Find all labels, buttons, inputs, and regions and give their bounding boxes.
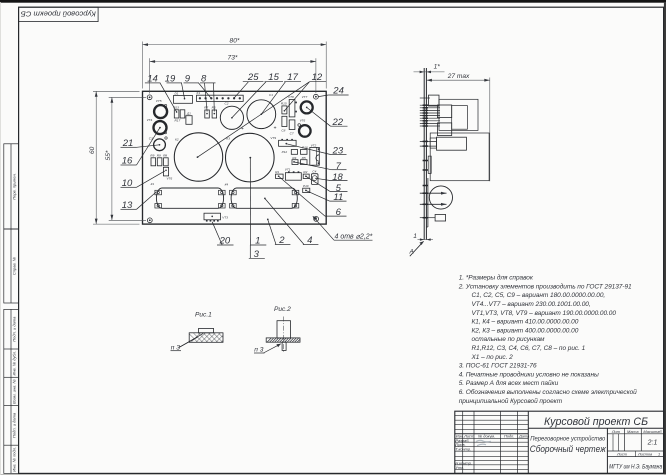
transistor VT8 rect [288,95,297,117]
fig2 solder leader [254,344,281,354]
callout 20 [212,222,233,247]
svg-text:2. Установку элементов произв: 2. Установку элементов производить по ГО… [458,282,632,290]
svg-text:Курсовой проект СБ: Курсовой проект СБ [544,416,648,428]
staff rows [455,437,529,439]
capacitor C3 [149,137,167,151]
callout 4 holes dia 2.2 [313,216,373,240]
svg-text:Переговорное устройство: Переговорное устройство [530,435,605,443]
svg-text:VT5: VT5 [156,99,162,103]
bottom page edge line [0,473,666,475]
mounting hole top-right [314,94,319,99]
svg-text:VT4: VT4 [147,118,153,122]
title block outer [455,411,664,473]
side view strip I [428,156,431,173]
fig1 component on top [199,328,214,332]
resistor R2 [303,170,309,179]
callout 18 [315,172,348,183]
svg-text:Масштаб: Масштаб [643,429,662,434]
svg-text:Инв. № подл.: Инв. № подл. [12,447,17,472]
svg-text:1: 1 [658,452,660,457]
svg-text:К2: К2 [175,138,179,142]
fig1 label [195,312,212,319]
fig1 hatched PCB bar [189,333,223,343]
revision rows [455,415,529,417]
side view dimension 27 max [426,73,489,181]
capacitor C7 [289,120,295,136]
callout 7 [294,161,346,172]
top edge black bar [0,0,666,3]
resistor R11 [163,167,172,180]
IC DA1 [174,91,193,103]
callout 6 [279,177,347,219]
resistor R12 pair [282,145,308,154]
side view component D [452,106,468,130]
dimension 73* [150,54,316,93]
resistor R13 pair [173,106,185,123]
callout 9 [184,73,212,98]
svg-text:1. *Размеры для справок: 1. *Размеры для справок [459,274,534,282]
svg-text:18: 18 [332,172,343,183]
svg-text:С2: С2 [225,102,229,106]
mounting hole top-left [147,95,152,100]
resistor R15 [281,102,287,114]
svg-text:Дата: Дата [518,433,530,438]
svg-text:Лит: Лит [611,429,621,434]
top-left designation box [19,7,99,21]
callout 5 [306,176,347,194]
svg-text:А: А [409,249,415,256]
svg-text:1*: 1* [434,63,441,70]
svg-text:VT7: VT7 [302,95,308,99]
callout 23 [287,144,347,157]
side view big outline B [439,99,478,130]
svg-text:VT6: VT6 [167,177,173,181]
svg-text:С4: С4 [312,169,316,173]
svg-text:Подп.: Подп. [504,433,514,438]
svg-text:VT1: VT1 [285,167,291,171]
solder size A arrow [409,241,424,256]
callout 25 [234,72,264,98]
svg-text:X1: X1 [195,91,200,95]
capacitor C4 [311,169,318,184]
capacitor C2 [220,102,244,133]
callout 14 [145,73,177,112]
callout 2 [267,219,290,247]
svg-text:R8: R8 [163,154,167,158]
resistor row R9 R9 R8 [150,154,168,166]
svg-text:27 max: 27 max [447,73,470,80]
svg-text:VT3: VT3 [222,215,228,219]
svg-text:К2, К3 – вариант 400.00.0000.0: К2, К3 – вариант 400.00.0000.00.00 [472,327,579,334]
transistor VT6 [298,119,311,137]
svg-text:VT2: VT2 [311,143,317,147]
svg-text:С1, С2, С5, С9 – вариант 180.0: С1, С2, С5, С9 – вариант 180.00.0000.00.… [472,292,606,299]
svg-text:R2: R2 [303,170,307,174]
callout 24 [318,86,348,97]
side view strip K behind board [426,178,428,227]
svg-text:Рис.1: Рис.1 [195,312,212,319]
callout 4 [264,198,318,247]
transistor VT7 [301,95,313,113]
svg-text:№ докум.: № докум. [478,433,495,438]
left margin column: Справ. № [4,229,19,303]
fig2 label [274,306,291,313]
svg-text:Сборочный чертеж: Сборочный чертеж [530,444,607,454]
side view component A [429,95,440,106]
svg-text:Подп. и дата: Подп. и дата [12,316,17,342]
svg-text:D1: D1 [175,91,179,95]
svg-text:5. Размер А для всех мест пай: 5. Размер А для всех мест пайки [459,379,559,387]
callout 10 [121,171,165,189]
svg-text:55*: 55* [105,150,112,160]
fig2 pin below [282,342,286,350]
svg-text:п 3: п 3 [254,347,263,354]
connector X1 [195,91,243,101]
left margin column: Перв. примен. [4,144,19,229]
side view relay can circle [420,186,453,209]
mounting hole bottom-left [147,218,152,223]
svg-text:R9: R9 [150,154,154,158]
svg-text:Справ. №: Справ. № [12,256,17,275]
svg-text:R6: R6 [212,106,216,110]
relay K2 circle [174,133,222,181]
svg-text:Д1: Д1 [186,112,191,116]
resistor R10 [303,184,310,193]
svg-text:К4: К4 [225,182,229,186]
svg-text:принципиальной Курсовой проект: принципиальной Курсовой проект [459,397,563,405]
resistor R1 [275,170,283,179]
dimension 55* [105,97,146,220]
mounting hole bottom-right [314,217,319,222]
callout 22 [307,108,348,128]
svg-text:4 отв ⌀2,2*: 4 отв ⌀2,2* [335,234,373,241]
callout 12 [198,72,327,157]
svg-text:7: 7 [336,161,342,172]
side view component G [437,137,467,150]
transistor VT1 [285,167,302,180]
resistor R4 [292,156,298,165]
svg-text:2:1: 2:1 [647,439,658,446]
svg-text:VT4...VT7 – вариант 230.00.100: VT4...VT7 – вариант 230.00.1001.00.00, [472,301,591,308]
svg-text:Р12: Р12 [282,150,288,154]
svg-text:Курсовой проект СБ: Курсовой проект СБ [21,9,96,18]
left page edge faint line [0,2,2,475]
svg-text:Инв. № дубл.: Инв. № дубл. [12,351,17,376]
transistor VT2 [310,143,320,165]
transistor VT5 [154,99,167,118]
callout 21 [121,138,160,149]
transistor VT3 [204,213,228,221]
svg-text:4. Печатные проводники условн: 4. Печатные проводники условно не показа… [459,370,599,378]
svg-text:остальные по рисункам: остальные по рисункам [472,336,546,343]
callout 15 [232,72,283,117]
svg-text:+: + [274,126,277,132]
svg-text:Масса: Масса [627,429,639,434]
side view PCB edge [424,68,426,240]
svg-text:Утв.: Утв. [455,465,464,470]
svg-text:Рис.2: Рис.2 [274,306,291,313]
svg-text:К1, К4 – вариант 410.00.0000.0: К1, К4 – вариант 410.00.0000.00.00 [472,319,579,326]
side view deep outline F [430,133,489,181]
svg-text:60: 60 [89,146,96,154]
dimension 80* [143,38,327,89]
side view component pins [420,98,440,186]
fig1 solder leaders [171,334,204,352]
svg-text:К1: К1 [151,182,155,186]
side view dimension 1* [414,63,445,73]
svg-text:С7: С7 [290,132,294,136]
capacitor C8 [281,116,287,132]
svg-text:Листов: Листов [637,452,652,457]
svg-text:R17: R17 [175,119,181,123]
side view component E [437,123,451,136]
callout 17 [261,72,301,114]
svg-text:VT1,VT3, VT8, VT9 – вариант 19: VT1,VT3, VT8, VT9 – вариант 190.00.0000.… [472,310,617,317]
right part division [528,427,664,429]
svg-text:1: 1 [413,233,417,240]
PCB board outline [143,91,327,224]
svg-text:R4: R4 [292,156,296,160]
svg-text:R9: R9 [157,154,161,158]
svg-text:VT6: VT6 [300,119,306,123]
fig2 connector body [277,317,291,353]
side view component H [430,138,436,148]
svg-text:80*: 80* [230,38,240,45]
svg-text:R5: R5 [302,156,306,160]
callout 16 [121,128,160,167]
resistor R6 [212,106,217,118]
svg-text:Перв. примен.: Перв. примен. [12,173,17,200]
left margin column: lower block [4,309,19,473]
svg-text:R15: R15 [281,102,287,106]
transistor VT4 [147,118,167,134]
callout 13 [121,192,157,211]
svg-text:Взам. инв. №: Взам. инв. № [12,378,17,403]
transistor VT9 [270,136,296,146]
relay K4 [225,182,299,208]
svg-text:6. Обозначения выполнены со: 6. Обозначения выполнены согласно схеме … [459,388,637,396]
relay K1 [151,182,226,208]
left table verticals [462,411,464,473]
svg-text:Лист: Лист [616,452,628,457]
capacitor C1 [247,93,277,131]
dimension 60 [89,91,139,224]
fig2 hatched board bar [266,338,300,342]
svg-text:3. ПОС-61 ГОСТ 21931-76: 3. ПОС-61 ГОСТ 21931-76 [459,363,537,370]
callout 19 [165,73,185,98]
callout 1 and 3 [249,158,266,260]
svg-text:п 3: п 3 [171,344,180,351]
diode D2 [186,112,192,125]
right page edge dark band [664,2,666,475]
side view component C [437,105,451,118]
svg-text:23: 23 [332,146,344,157]
svg-text:С1: С1 [269,93,273,97]
svg-text:МГТУ им Н.Э. Баумана: МГТУ им Н.Э. Баумана [609,464,662,471]
svg-text:Р10: Р10 [303,184,309,188]
svg-text:73*: 73* [228,54,238,61]
svg-text:Т.контр.: Т.контр. [455,447,471,452]
resistor R7 [204,106,209,118]
svg-text:R1: R1 [275,170,279,174]
svg-text:R1,R12, С3, С4, С6, С7, С8 – п: R1,R12, С3, С4, С6, С7, С8 – по рис. 1 [472,345,586,352]
svg-text:Подп. и дата: Подп. и дата [12,412,17,438]
relay K3 circle [226,133,275,182]
side view component J [420,215,446,222]
resistor R5 [301,156,308,165]
side view dimension 1 bottom [413,233,433,241]
svg-text:Х1 – по рис. 2: Х1 – по рис. 2 [471,354,514,361]
svg-text:С8: С8 [281,128,285,132]
signature scribbles [476,440,491,445]
callout 11 [306,191,346,203]
callout 8 [200,73,216,111]
svg-text:VT9: VT9 [270,136,276,140]
